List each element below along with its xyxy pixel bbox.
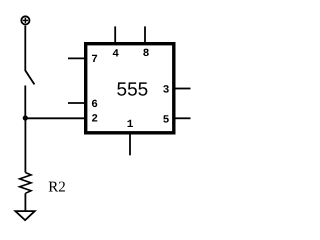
svg-text:4: 4 xyxy=(112,48,119,60)
node junction dot xyxy=(23,115,28,120)
pin 5 stub xyxy=(175,117,191,119)
pin 7 stub xyxy=(68,57,85,59)
svg-text:6: 6 xyxy=(91,99,98,111)
wire terminal to switch xyxy=(24,26,26,71)
wire node to resistor xyxy=(24,118,26,173)
ground symbol xyxy=(15,211,34,220)
wire node to pin 2 xyxy=(25,117,85,119)
svg-text:8: 8 xyxy=(143,48,150,60)
pin 4 stub xyxy=(114,26,116,43)
wire resistor to ground xyxy=(24,193,26,211)
svg-text:3: 3 xyxy=(163,85,170,97)
svg-text:7: 7 xyxy=(91,54,98,66)
svg-text:2: 2 xyxy=(91,114,98,126)
pin 6 stub xyxy=(68,102,85,104)
resistor R2 xyxy=(20,173,32,194)
svg-text:1: 1 xyxy=(127,119,134,131)
switch blade xyxy=(25,71,34,85)
supply positive terminal xyxy=(21,16,29,24)
IC 555 timer body xyxy=(86,44,174,133)
svg-text:555: 555 xyxy=(117,80,149,101)
pin 1 stub xyxy=(129,133,131,155)
wire switch to node xyxy=(24,86,26,119)
svg-text:R2: R2 xyxy=(48,180,66,196)
pin 8 stub xyxy=(144,26,146,43)
svg-text:5: 5 xyxy=(163,114,170,126)
pin 3 stub xyxy=(175,88,191,90)
